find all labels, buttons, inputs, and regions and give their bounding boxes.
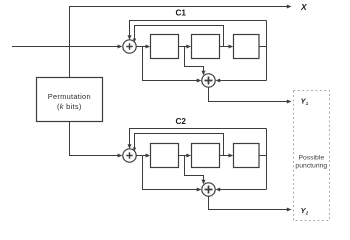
svg-text:C1: C1 bbox=[176, 9, 187, 18]
wire D6 output to right vertical bbox=[259, 155, 267, 157]
adder A4 (C2 output XOR) bbox=[202, 183, 215, 196]
wire right vertical C1 bbox=[266, 21, 268, 81]
wire branch up to X output bbox=[70, 7, 290, 47]
register D4 bbox=[151, 144, 179, 168]
register D5 bbox=[192, 144, 220, 168]
svg-text:Permutation: Permutation bbox=[48, 92, 91, 101]
adder A1 (C1 input XOR) bbox=[123, 40, 136, 53]
wire feedback to adder A4 right bbox=[218, 189, 267, 191]
svg-text:Y2: Y2 bbox=[301, 206, 309, 215]
wire D5 to D6 bbox=[220, 155, 231, 157]
register D3 bbox=[234, 35, 260, 59]
register D2 bbox=[192, 35, 220, 59]
wire D1 to D2 bbox=[179, 46, 189, 48]
wire permutation to adder A3 bbox=[70, 122, 120, 156]
wire D2 to D3 bbox=[220, 46, 231, 48]
wire inner feedback C2 bbox=[135, 134, 224, 156]
wire A4 to Y2 output bbox=[209, 196, 290, 209]
wire D4 to D5 bbox=[179, 155, 189, 157]
wire outer feedback C2 bbox=[130, 129, 267, 147]
wire tap D4-D5 down to A4 top bbox=[185, 156, 204, 182]
wire input line bbox=[12, 46, 120, 48]
wire tap D1-D2 down to A2 top bbox=[185, 47, 204, 73]
register D1 bbox=[151, 35, 179, 59]
wire tap after A3 down to A4 bbox=[143, 156, 200, 190]
svg-text:puncturing: puncturing bbox=[295, 163, 327, 170]
wire A2 to Y1 output bbox=[209, 87, 290, 101]
wire outer feedback C1 bbox=[130, 21, 267, 38]
wire A1 to D1 bbox=[136, 46, 148, 48]
wire tap after A1 down to A2 bbox=[143, 47, 200, 81]
wire right vertical C2 bbox=[266, 129, 268, 190]
svg-text:Possible: Possible bbox=[298, 155, 324, 162]
svg-text:(k bits): (k bits) bbox=[57, 102, 82, 111]
wire D3 output to right vertical bbox=[259, 46, 267, 48]
svg-text:X: X bbox=[300, 2, 308, 12]
permutation box P1 bbox=[37, 78, 103, 122]
register D6 bbox=[234, 144, 260, 168]
wire inner feedback C1 bbox=[135, 26, 224, 47]
wire feedback to adder A2 right bbox=[218, 80, 267, 82]
wire A3 to D4 bbox=[136, 155, 148, 157]
svg-text:C2: C2 bbox=[176, 117, 187, 126]
wire branch down to permutation bbox=[69, 47, 71, 78]
puncturing box (dashed) bbox=[294, 91, 330, 221]
svg-text:Y1: Y1 bbox=[301, 97, 309, 106]
adder A3 (C2 input XOR) bbox=[123, 149, 136, 162]
adder A2 (C1 output XOR) bbox=[202, 74, 215, 87]
